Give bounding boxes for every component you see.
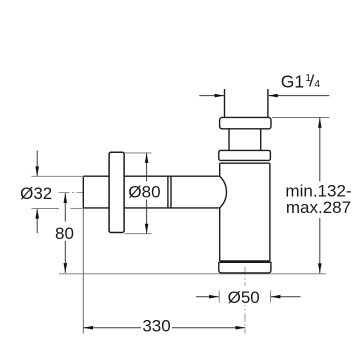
svg-text:1: 1 (305, 72, 311, 84)
svg-text:Ø32: Ø32 (20, 184, 52, 203)
wire extension pipe top left (31, 175, 84, 177)
dim G1 1/4 line (199, 95, 329, 97)
label 80 (53, 222, 76, 242)
arrow G1 right-point (215, 94, 225, 98)
body bottom edge (220, 260, 270, 263)
body inlet boss arc (220, 176, 227, 208)
wire reference line bottom (59, 273, 326, 275)
arrow 80 up (64, 193, 68, 203)
svg-text:330: 330 (142, 317, 170, 336)
dim 330 line (83, 327, 245, 329)
svg-text:max.287: max.287 (286, 198, 351, 217)
body bottle (220, 163, 270, 261)
centerline bottle axis (244, 267, 246, 334)
arrow O32 down (35, 166, 39, 176)
svg-text:Ø80: Ø80 (128, 183, 160, 202)
arrow O32 up (35, 209, 39, 219)
arrow G1 left-point (268, 94, 278, 98)
dim O80 vertical (146, 153, 148, 234)
arrow O80 down (145, 224, 149, 234)
dim O50 lines (196, 296, 219, 298)
centerline pipe axis (59, 191, 85, 193)
pipe tailpiece (229, 129, 261, 151)
pipe inlet tube horizontal (83, 176, 219, 208)
arrow 80 down (64, 263, 68, 273)
arrow O50 right-point (209, 295, 219, 299)
svg-text:Ø50: Ø50 (228, 288, 260, 307)
svg-text:4: 4 (314, 78, 320, 90)
arrow O80 up (145, 153, 149, 163)
svg-text:G1: G1 (281, 72, 304, 92)
flange wall escutcheon (109, 152, 124, 232)
label O50 (226, 286, 262, 305)
wire extension nut top (272, 117, 329, 119)
label G1 1/4 (281, 72, 320, 92)
svg-text:80: 80 (55, 224, 74, 243)
label min.132-max.287 (284, 182, 353, 219)
dim min-max vertical (319, 118, 321, 274)
label 330 (141, 318, 172, 334)
arrow min up (318, 118, 322, 128)
dim O32 arrows lines (36, 151, 38, 177)
wire extension line 330 left (82, 208, 84, 334)
arrow min down (318, 263, 322, 273)
dim 80 vertical (64, 193, 66, 273)
arrow 330 left-point (83, 326, 93, 330)
arrow 330 right-point (236, 326, 246, 330)
cap bottle bottom (219, 262, 271, 273)
wire extension flange bottom (125, 233, 152, 235)
arrow O50 left-point (271, 295, 281, 299)
pipe vertical G thread (225, 89, 268, 117)
wire extension O50 stubs (218, 291, 220, 303)
wire extension pipe bottom left (31, 207, 59, 209)
nut top (220, 117, 271, 128)
cap body top (219, 150, 271, 160)
wire extension flange top (125, 152, 152, 154)
label O80 (127, 182, 162, 200)
